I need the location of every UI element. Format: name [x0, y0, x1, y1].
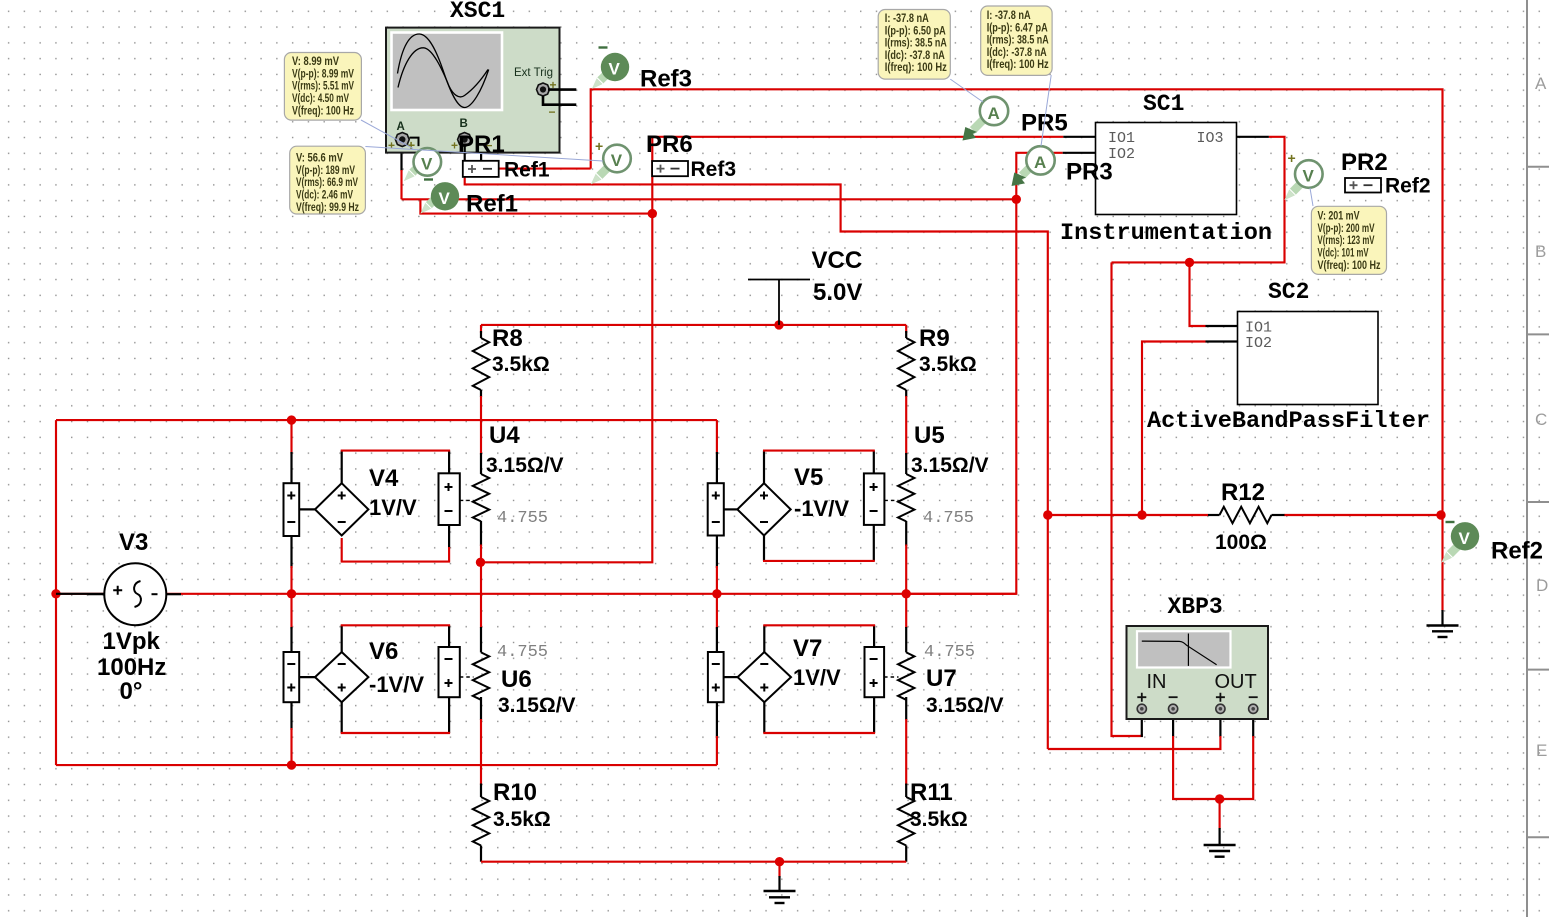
svg-text:A: A: [397, 121, 405, 133]
svg-text:I(p-p): 6.50 pA: I(p-p): 6.50 pA: [885, 25, 946, 37]
svg-text:V: 201 mV: V: 201 mV: [1318, 210, 1360, 222]
wire PR5 horizontal to SC1 IO1: [652, 136, 1063, 138]
svg-text:B: B: [460, 118, 468, 130]
probe PR6 voltage: [591, 138, 631, 184]
wire R12 row: [1048, 514, 1208, 516]
svg-text:V: V: [439, 189, 451, 208]
svg-text:V(dc): 2.46 mV: V(dc): 2.46 mV: [296, 190, 353, 202]
VCVS V7: [708, 625, 884, 733]
svg-text:V(p-p): 189 mV: V(p-p): 189 mV: [296, 165, 355, 177]
svg-text:4.755: 4.755: [924, 643, 975, 662]
svg-text:SC2: SC2: [1268, 279, 1309, 305]
bode plotter XBP3: [1127, 626, 1269, 719]
svg-text:4.755: 4.755: [497, 509, 548, 528]
wire PR1 minus to top net: [483, 168, 591, 170]
svg-text:V(rms): 66.9 mV: V(rms): 66.9 mV: [296, 177, 358, 189]
wire R9 U5 U7 R11 column: [905, 325, 907, 333]
junction SC1 out: [1185, 258, 1194, 267]
svg-text:+: +: [550, 78, 557, 92]
svg-text:U4: U4: [489, 422, 520, 449]
junction V4 ctrl bottom: [287, 589, 296, 598]
svg-text:V: V: [421, 155, 433, 174]
svg-text:V(rms): 5.51 mV: V(rms): 5.51 mV: [292, 81, 354, 93]
VCVS V4: [284, 451, 460, 562]
ground right Ref2: [1427, 515, 1459, 637]
ground below XBP3: [1204, 799, 1236, 857]
svg-text:4.755: 4.755: [923, 509, 974, 528]
svg-text:R11: R11: [910, 779, 953, 806]
svg-text:A: A: [1034, 153, 1046, 172]
svg-text:-1V/V: -1V/V: [369, 672, 424, 697]
measurement callout PR2: [1310, 188, 1387, 274]
svg-text:3.5kΩ: 3.5kΩ: [493, 808, 551, 831]
probe PR3 current: [1012, 146, 1055, 186]
svg-text:3.15Ω/V: 3.15Ω/V: [486, 454, 564, 477]
measurement callout PR3: [981, 6, 1052, 146]
wire SC2 IO1 feed: [1190, 262, 1206, 326]
svg-text:V5: V5: [794, 464, 823, 491]
junction at PR3 node: [1012, 195, 1021, 204]
svg-text:B: B: [1535, 242, 1546, 261]
VCVS V6: [284, 625, 460, 733]
wire PR1 plus pin down-right: [465, 177, 1048, 749]
svg-text:V(dc): 4.50 mV: V(dc): 4.50 mV: [292, 93, 349, 105]
svg-text:V(p-p): 8.99 mV: V(p-p): 8.99 mV: [292, 68, 354, 80]
wire to XBP3 IN plus: [1112, 262, 1142, 736]
svg-text:IO1: IO1: [1108, 130, 1135, 147]
svg-text:0°: 0°: [120, 678, 143, 705]
svg-text:VCC: VCC: [812, 247, 863, 274]
svg-text:PR6: PR6: [646, 131, 693, 158]
svg-text:I: -37.8 nA: I: -37.8 nA: [987, 10, 1031, 22]
svg-text:4.755: 4.755: [497, 643, 548, 662]
svg-text:100Ω: 100Ω: [1215, 531, 1267, 554]
VCR U7: [884, 643, 1003, 717]
junction U5 mid: [902, 589, 911, 598]
svg-text:Ref1: Ref1: [466, 191, 518, 218]
svg-text:I(freq): 100 Hz: I(freq): 100 Hz: [885, 62, 947, 74]
probe Ref3 reference: [592, 48, 629, 89]
VCVS V5: [708, 451, 885, 561]
measurement callout PR1: [284, 53, 413, 149]
probe Ref2 reference: [1442, 522, 1480, 563]
wire V4 ctrl column: [290, 420, 292, 454]
wire SC1 IO3 to right: [1237, 136, 1269, 138]
wire V7 ctrl column: [716, 594, 718, 629]
svg-text:IN: IN: [1147, 671, 1167, 693]
svg-text:Ref1: Ref1: [504, 159, 550, 182]
differential probe box PR6: [652, 161, 688, 176]
svg-text:+: +: [407, 137, 415, 153]
svg-text:IO3: IO3: [1197, 130, 1224, 147]
wire V6 ctrl column: [290, 594, 292, 629]
subcircuit SC1 Instrumentation: [1096, 123, 1237, 215]
VCR U6: [460, 643, 576, 717]
svg-text:U7: U7: [926, 665, 957, 692]
svg-text:I(p-p): 6.47 pA: I(p-p): 6.47 pA: [987, 22, 1048, 34]
svg-text:V: V: [611, 151, 623, 170]
svg-text:E: E: [1536, 741, 1547, 760]
svg-text:V(freq): 100 Hz: V(freq): 100 Hz: [1318, 260, 1381, 272]
svg-text:V(freq): 100 Hz: V(freq): 100 Hz: [292, 105, 354, 117]
VCR U4: [460, 422, 564, 528]
svg-text:PR3: PR3: [1066, 159, 1113, 186]
svg-text:R8: R8: [492, 325, 523, 352]
svg-text:+: +: [595, 138, 603, 154]
svg-text:V(freq): 99.9 Hz: V(freq): 99.9 Hz: [296, 202, 359, 214]
svg-text:V7: V7: [793, 635, 822, 662]
resistor R11: [898, 779, 968, 845]
svg-text:V(dc): 101 mV: V(dc): 101 mV: [1318, 248, 1369, 260]
wire net Ref3 top horizontal: [591, 89, 1443, 515]
svg-text:IO2: IO2: [1245, 335, 1272, 352]
svg-text:3.15Ω/V: 3.15Ω/V: [926, 694, 1004, 717]
svg-text:3.15Ω/V: 3.15Ω/V: [498, 694, 576, 717]
svg-text:IO1: IO1: [1245, 320, 1272, 337]
resistor R8: [473, 325, 550, 390]
svg-text:I(rms): 38.5 nA: I(rms): 38.5 nA: [885, 38, 947, 50]
resistor R10: [473, 779, 551, 845]
svg-text:V4: V4: [369, 465, 399, 492]
svg-text:3.5kΩ: 3.5kΩ: [910, 808, 968, 831]
wire branch to Ref1 probe stub: [420, 199, 652, 213]
svg-text:OUT: OUT: [1215, 671, 1257, 693]
wire bottom rail between R10 R11: [481, 861, 906, 863]
junction V6 ctrl bottom: [287, 760, 296, 769]
svg-text:Ref2: Ref2: [1491, 538, 1543, 565]
Ext Trig terminal: [537, 83, 550, 96]
probe PR2 voltage: [1285, 150, 1323, 200]
svg-text:U5: U5: [914, 422, 945, 449]
svg-text:V(p-p): 200 mV: V(p-p): 200 mV: [1318, 223, 1375, 235]
svg-text:V3: V3: [119, 529, 148, 556]
VCC power symbol: [748, 247, 862, 325]
svg-text:A: A: [988, 104, 1000, 123]
oscilloscope XSC1: [386, 28, 576, 169]
svg-text:+: +: [388, 139, 395, 153]
svg-text:V: V: [609, 60, 621, 79]
svg-text:Instrumentation: Instrumentation: [1060, 220, 1272, 246]
junction XBP3 ground: [1215, 794, 1224, 803]
svg-text:I(rms): 38.5 nA: I(rms): 38.5 nA: [987, 35, 1049, 47]
svg-text:A: A: [1535, 74, 1547, 93]
svg-text:R9: R9: [919, 325, 950, 352]
resistor R12 horizontal: [1208, 479, 1285, 554]
subcircuit SC2 ActiveBandPassFilter: [1238, 312, 1379, 405]
svg-text:Ext Trig: Ext Trig: [514, 67, 553, 79]
wire left loop vertical: [55, 420, 57, 765]
svg-text:1V/V: 1V/V: [793, 665, 841, 690]
VCR U5: [884, 422, 988, 528]
svg-text:R10: R10: [493, 779, 537, 806]
wire bottom row ctrl: [56, 764, 717, 766]
svg-text:XSC1: XSC1: [450, 0, 505, 24]
svg-text:PR2: PR2: [1341, 149, 1388, 176]
junction V4 ctrl top: [287, 415, 296, 424]
svg-text:Ref3: Ref3: [691, 158, 737, 181]
differential probe box PR1: [463, 161, 499, 177]
junction R12 right: [1436, 510, 1445, 519]
svg-text:I(freq): 100 Hz: I(freq): 100 Hz: [987, 59, 1049, 71]
probe Ref1 reference: [421, 180, 460, 214]
svg-text:3.5kΩ: 3.5kΩ: [492, 353, 550, 376]
svg-text:ActiveBandPassFilter: ActiveBandPassFilter: [1147, 408, 1430, 434]
wire A-channel horizontal to SC1 IO2 net: [402, 198, 1017, 200]
svg-text:R12: R12: [1221, 479, 1265, 506]
svg-text:I(dc): -37.8 nA: I(dc): -37.8 nA: [987, 47, 1047, 59]
junction V5 ctrl bottom: [712, 589, 721, 598]
svg-text:−: −: [549, 105, 556, 119]
svg-text:-1V/V: -1V/V: [794, 496, 849, 521]
svg-text:V(rms): 123 mV: V(rms): 123 mV: [1318, 235, 1375, 247]
wire XBP3 terminal stubs: [1141, 712, 1143, 737]
junction U4 bottom: [476, 558, 485, 567]
wire XBP3 OUT plus return: [1048, 736, 1221, 749]
measurement callout PR5: [878, 10, 983, 103]
wire R8 U4 R10 column: [480, 325, 482, 333]
probe PR5 current: [963, 97, 1009, 141]
junction R12 left: [1043, 510, 1052, 519]
svg-text:V: 56.6 mV: V: 56.6 mV: [296, 153, 343, 165]
source V3 sine: [56, 529, 181, 705]
svg-text:+: +: [451, 139, 458, 153]
junction SC2 IO2 feed: [1137, 510, 1146, 519]
svg-text:I(dc): -37.8 nA: I(dc): -37.8 nA: [885, 50, 945, 62]
svg-text:SC1: SC1: [1143, 91, 1184, 117]
wire PR6 vertical: [481, 137, 653, 563]
wire VCC rail: [481, 324, 906, 326]
junction V3 left: [51, 589, 60, 598]
wire SC1 IO2 to PR3 vertical: [906, 153, 1062, 594]
probe PR1 voltage: [404, 148, 441, 181]
wire V5 ctrl column: [716, 420, 718, 454]
svg-text:V6: V6: [369, 638, 398, 665]
svg-text:I: -37.8 nA: I: -37.8 nA: [885, 13, 929, 25]
svg-text:5.0V: 5.0V: [813, 279, 862, 306]
wire scope A channel down: [400, 146, 402, 171]
svg-text:1V/V: 1V/V: [369, 495, 417, 520]
svg-text:1Vpk: 1Vpk: [103, 628, 161, 655]
differential probe box PR2: [1345, 178, 1381, 193]
svg-text:100Hz: 100Hz: [97, 654, 166, 681]
junction bottom ground rail: [775, 857, 784, 866]
sheet border right edge: [1526, 0, 1528, 917]
wire mid row V3 output: [56, 593, 1016, 595]
svg-text:V: V: [1303, 167, 1315, 186]
measurement callout PR6: [290, 146, 603, 214]
svg-text:Ref2: Ref2: [1385, 175, 1431, 198]
svg-text:D: D: [1536, 576, 1548, 595]
svg-text:3.5kΩ: 3.5kΩ: [919, 353, 977, 376]
svg-text:+: +: [1288, 150, 1296, 166]
junction VCC rail: [774, 320, 783, 329]
svg-text:C: C: [1535, 410, 1547, 429]
svg-text:V: 8.99 mV: V: 8.99 mV: [292, 56, 339, 68]
svg-text:XBP3: XBP3: [1168, 594, 1223, 620]
junction at PR6 stub: [648, 209, 657, 218]
wire SC2 IO2 feed: [1142, 342, 1206, 516]
svg-text:3.15Ω/V: 3.15Ω/V: [911, 454, 989, 477]
resistor R9: [898, 325, 977, 390]
svg-text:Ref3: Ref3: [640, 66, 692, 93]
wire XBP3 IN minus to OUT minus: [1173, 736, 1253, 799]
wire top row ctrl: [56, 419, 717, 421]
svg-text:V: V: [1459, 529, 1471, 548]
ground bottom center: [764, 862, 796, 903]
svg-text:U6: U6: [501, 666, 532, 693]
